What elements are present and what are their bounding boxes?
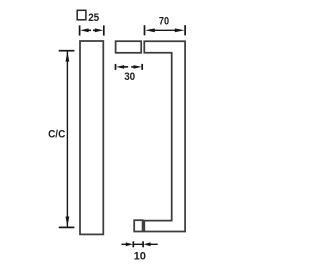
svg-text:30: 30	[124, 71, 135, 83]
svg-text:10: 10	[134, 250, 146, 262]
svg-text:C/C: C/C	[48, 129, 65, 141]
svg-text:25: 25	[88, 12, 99, 24]
svg-text:70: 70	[159, 16, 169, 28]
